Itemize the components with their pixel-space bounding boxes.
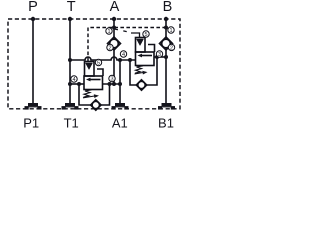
check valve on B line — [160, 37, 173, 50]
pilot line dashed from B to valve A — [88, 28, 166, 62]
valve B pilot box — [136, 38, 146, 53]
balloon 2 B — [168, 44, 174, 51]
pilot line dashed from A to valve B — [115, 29, 133, 33]
svg-text:P: P — [28, 0, 38, 15]
valve A pilot box — [85, 62, 95, 77]
valve A body — [84, 76, 103, 90]
balloon 3 A — [109, 75, 115, 82]
junction check A left — [77, 82, 81, 86]
svg-text:A1: A1 — [112, 116, 128, 131]
enclosure dashed border — [8, 19, 180, 109]
svg-text:P1: P1 — [23, 116, 39, 131]
junction B pilot tap — [164, 26, 168, 30]
wire check B right riser — [147, 57, 157, 85]
svg-text:2: 2 — [108, 46, 111, 52]
port stub B1 — [158, 103, 175, 110]
svg-text:5: 5 — [144, 32, 147, 38]
junction A line y84 — [112, 82, 116, 86]
port stub A1 — [112, 103, 129, 110]
balloon 1 A — [106, 28, 112, 35]
wire B line — [165, 19, 167, 37]
wire riser A1 — [119, 60, 121, 103]
svg-text:1: 1 — [169, 28, 172, 34]
valve B body — [136, 52, 155, 66]
valve A spring — [84, 90, 92, 97]
wire valve A right port — [103, 83, 121, 85]
valve A pilot arrow — [86, 63, 93, 70]
junction T y84 — [68, 82, 72, 86]
svg-text:5: 5 — [97, 61, 100, 67]
wire check A right riser — [101, 84, 110, 105]
check valve bypass A — [91, 100, 101, 110]
balloon 3 B — [156, 51, 162, 58]
node B port dot — [164, 17, 168, 21]
check valve bypass B — [136, 80, 146, 90]
node T port dot — [68, 17, 72, 21]
svg-text:A: A — [110, 0, 120, 15]
svg-text:1: 1 — [107, 29, 110, 35]
junction rail riser A1 — [118, 58, 122, 62]
balloon 4 A — [71, 76, 77, 83]
wire T rail y60 with hops — [70, 57, 136, 60]
wire valve B right port — [154, 56, 166, 58]
svg-text:T1: T1 — [64, 116, 79, 131]
svg-text:T: T — [67, 0, 76, 15]
valve A spring bracket — [97, 69, 103, 76]
junction A1 riser y84 — [118, 82, 122, 86]
junction B line y57 — [164, 55, 168, 59]
wire P line — [32, 19, 34, 103]
valve A adjust arrow — [83, 96, 95, 98]
svg-text:B: B — [163, 0, 173, 15]
wire check A left riser — [79, 84, 91, 105]
balloon 5 B — [143, 31, 149, 38]
port stub P1 — [25, 103, 42, 110]
junction rail riser check B — [128, 58, 132, 62]
svg-text:3: 3 — [158, 52, 161, 58]
balloon 2 A — [107, 44, 113, 51]
junction check B riser — [155, 55, 159, 59]
node A port dot — [112, 17, 116, 21]
valve B adjust arrow — [135, 73, 144, 75]
valve B internal arrow — [140, 55, 153, 57]
svg-text:3: 3 — [110, 77, 113, 83]
junction T rail — [68, 58, 72, 62]
balloon 4 B — [120, 51, 126, 58]
valve A internal arrow — [88, 79, 101, 81]
junction A pilot tap — [112, 26, 116, 30]
valve B pilot arrow — [137, 39, 144, 46]
wire y84 T to valve A — [70, 83, 84, 85]
svg-text:B1: B1 — [158, 116, 174, 131]
balloon 1 B — [168, 27, 174, 34]
valve B spring bracket — [148, 45, 155, 53]
port stub T1 — [62, 103, 79, 110]
valve B spring — [135, 66, 143, 73]
svg-text:4: 4 — [122, 52, 125, 58]
junction check A right — [108, 82, 112, 86]
wire riser to check B — [130, 60, 136, 85]
svg-text:4: 4 — [72, 77, 75, 83]
node P port dot — [31, 17, 35, 21]
wire A line — [113, 19, 115, 37]
check valve on A line — [108, 37, 121, 50]
svg-text:2: 2 — [170, 46, 173, 52]
balloon 5 A — [95, 59, 101, 66]
wire T line — [69, 19, 71, 103]
